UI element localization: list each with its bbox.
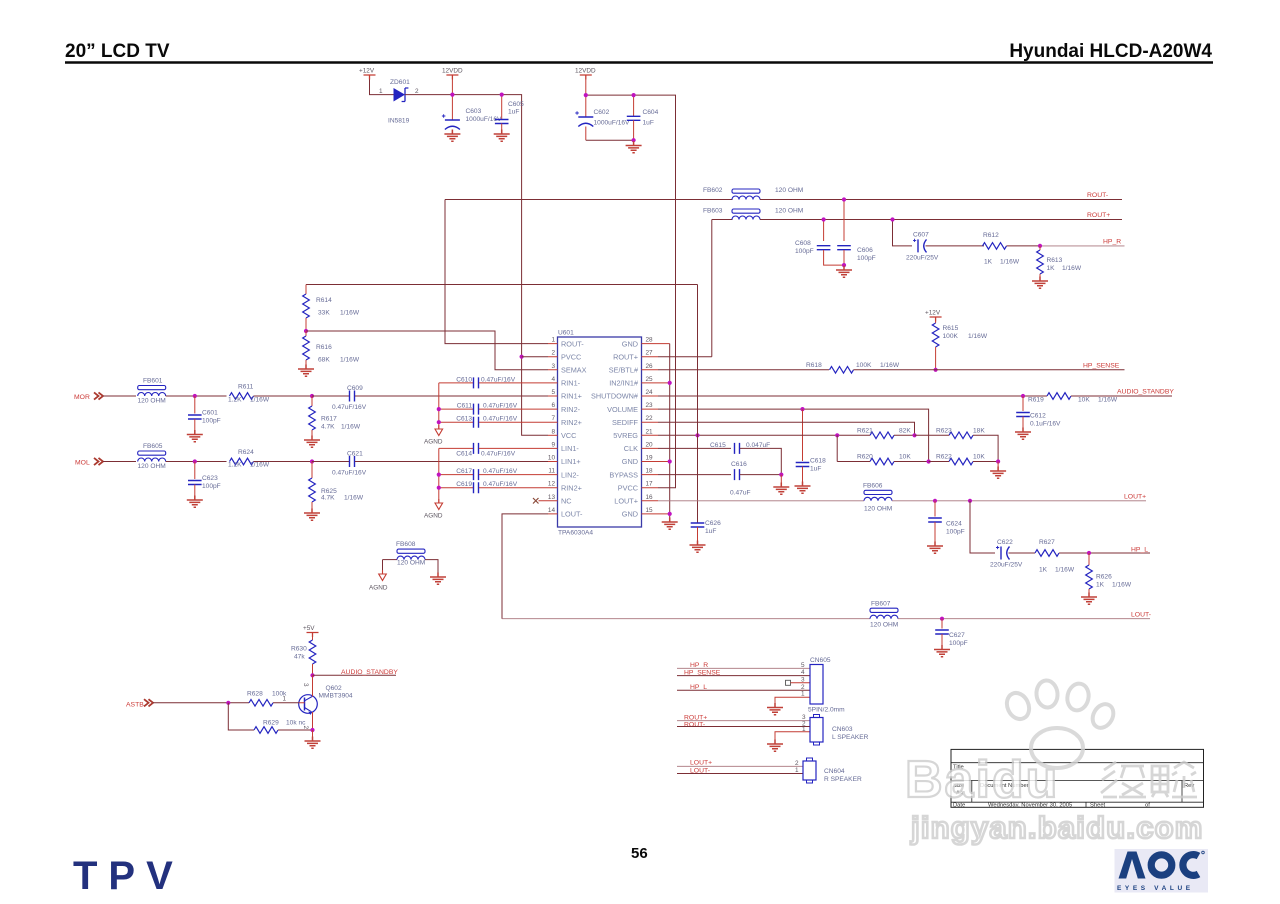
junction node ROUT+/C608	[822, 217, 826, 221]
svg-text:LIN2-: LIN2-	[561, 470, 579, 479]
svg-text:2: 2	[415, 88, 419, 95]
wire FB605 to R624	[166, 461, 227, 463]
ferrite bead FB608 120 OHM	[383, 541, 439, 577]
wire FB607 to LOUT-	[898, 618, 1150, 620]
svg-text:1/16W: 1/16W	[344, 495, 364, 502]
power +5V	[303, 625, 319, 637]
svg-text:TPA6030A4: TPA6030A4	[558, 530, 593, 537]
ground under C624	[927, 542, 943, 554]
svg-text:R629: R629	[263, 720, 279, 727]
svg-text:R617: R617	[321, 416, 337, 423]
svg-text:1/16W: 1/16W	[250, 462, 270, 469]
input ASTB	[126, 699, 153, 708]
junction node LOUT+/HP_L branch	[968, 499, 972, 503]
junction node C602/C604 gnd	[632, 138, 636, 142]
ground under C616 node	[773, 475, 789, 495]
capacitor C604 1uF	[627, 95, 659, 140]
junction node HP_R/R613	[1038, 244, 1042, 248]
junction node R621 right/SEDIFF	[912, 433, 916, 437]
svg-text:RIN1+: RIN1+	[561, 392, 582, 401]
svg-text:7: 7	[551, 415, 555, 422]
svg-text:C626: C626	[705, 520, 721, 527]
svg-text:ROUT-: ROUT-	[684, 722, 705, 729]
svg-text:EYES VALUE: EYES VALUE	[1117, 885, 1194, 892]
svg-text:6: 6	[551, 402, 555, 409]
svg-text:LOUT-: LOUT-	[561, 510, 583, 519]
svg-text:FB601: FB601	[143, 378, 163, 385]
junction node AUDIO_STANDBY/Q602	[310, 673, 314, 677]
capacitor C601 100pF	[188, 396, 221, 435]
IC U601 TPA6030A4	[558, 330, 642, 537]
svg-text:2: 2	[551, 350, 555, 357]
svg-text:R612: R612	[983, 232, 999, 239]
junction node LOUT-/C627	[940, 617, 944, 621]
svg-text:ZD601: ZD601	[390, 79, 410, 86]
ground under C612	[1015, 428, 1031, 440]
svg-text:120 OHM: 120 OHM	[397, 560, 425, 567]
connector CN603 L SPEAKER	[802, 714, 869, 745]
resistor network R621 82K	[837, 428, 914, 439]
svg-text:LIN1-: LIN1-	[561, 444, 579, 453]
svg-text:5VREG: 5VREG	[613, 431, 638, 440]
svg-text:SE/BTL#: SE/BTL#	[609, 366, 639, 375]
svg-text:0.47uF/16V: 0.47uF/16V	[332, 470, 367, 477]
wire VOLUME row pin23	[658, 409, 929, 461]
svg-text:20: 20	[646, 441, 654, 448]
svg-text:GND: GND	[622, 339, 638, 348]
wire AGND bus upper	[438, 383, 440, 429]
svg-text:Sheet: Sheet	[1090, 803, 1106, 809]
wire HP_R line	[677, 667, 810, 669]
resistor R626 1K 1/16W	[1086, 553, 1132, 597]
svg-text:24: 24	[646, 389, 654, 396]
svg-text:C624: C624	[946, 521, 962, 528]
svg-text:1/16W: 1/16W	[341, 424, 361, 431]
junction node HP_SENSE/R615	[934, 368, 938, 372]
zener diode ZD601 IN5819	[379, 79, 419, 125]
wire ROUT- row	[760, 199, 1122, 201]
svg-text:R SPEAKER: R SPEAKER	[824, 776, 862, 783]
svg-text:25: 25	[646, 376, 654, 383]
svg-text:1K: 1K	[1096, 582, 1105, 589]
svg-text:AGND: AGND	[369, 585, 388, 592]
wire R618 to HP_SENSE	[854, 369, 1125, 371]
wire LOUT+ branch to C622	[970, 501, 995, 553]
logo AOC	[1115, 849, 1209, 893]
svg-text:IN2/IN1#: IN2/IN1#	[609, 379, 639, 388]
svg-text:GND: GND	[622, 457, 638, 466]
ground under C605	[494, 130, 510, 142]
wire HP_SENSE row pin26	[658, 369, 829, 371]
svg-text:C605: C605	[508, 101, 524, 108]
power 12VDD #1	[442, 68, 463, 95]
svg-text:4.7K: 4.7K	[321, 495, 335, 502]
svg-text:12: 12	[548, 481, 556, 488]
svg-text:R615: R615	[943, 325, 959, 332]
resistor R616 68K 1/16W	[303, 331, 360, 369]
capacitor C608 100pF	[795, 220, 844, 266]
svg-text:13: 13	[548, 494, 556, 501]
wire BYPASS row pin18	[658, 474, 731, 476]
svg-text:1uF: 1uF	[705, 528, 716, 535]
svg-text:1/16W: 1/16W	[250, 397, 270, 404]
svg-text:C617: C617	[456, 468, 472, 475]
svg-text:R616: R616	[316, 344, 332, 351]
junction node HP_L/R626	[1087, 551, 1091, 555]
wire R612 to HP_R	[1007, 245, 1041, 247]
wire 5VREG row pin21	[658, 434, 837, 436]
svg-text:Q602: Q602	[326, 685, 342, 692]
svg-text:ROUT-: ROUT-	[561, 339, 584, 348]
svg-text:1uF: 1uF	[810, 466, 821, 473]
junction node LOUT+/C624	[933, 499, 937, 503]
svg-text:C612: C612	[1030, 413, 1046, 420]
wire MOR to FB601	[103, 395, 136, 397]
svg-text:1: 1	[379, 88, 383, 95]
ground under C627	[934, 645, 950, 657]
svg-text:ROUT+: ROUT+	[613, 352, 638, 361]
svg-text:1uF: 1uF	[643, 120, 654, 127]
wire pin1 ROUT- to FB602	[445, 200, 548, 344]
wire CN605 pin1 to ground	[775, 697, 810, 707]
svg-text:LOUT+: LOUT+	[614, 497, 638, 506]
wire ROUT+ row	[760, 219, 1122, 221]
svg-text:0.47uF/16V: 0.47uF/16V	[332, 404, 367, 411]
capacitor C626 1uF	[691, 520, 721, 545]
capacitor C613 0.47uF/16V	[439, 416, 548, 428]
svg-text:AGND: AGND	[424, 513, 443, 520]
svg-text:C613: C613	[456, 416, 472, 423]
transistor Q602 MMBT3904	[283, 675, 353, 730]
svg-text:0.1uF/16V: 0.1uF/16V	[1030, 421, 1061, 428]
svg-text:12VDD: 12VDD	[442, 68, 463, 75]
svg-text:100pF: 100pF	[795, 248, 814, 255]
svg-text:1/16W: 1/16W	[340, 310, 360, 317]
svg-text:0.47uF/16V: 0.47uF/16V	[483, 481, 518, 488]
junction node C617 agnd	[437, 473, 441, 477]
svg-text:PVCC: PVCC	[618, 483, 638, 492]
svg-text:R623: R623	[936, 428, 952, 435]
svg-text:C606: C606	[857, 247, 873, 254]
svg-text:R619: R619	[1028, 397, 1044, 404]
svg-text:jingyan.baidu.com: jingyan.baidu.com	[910, 810, 1204, 845]
svg-text:1K: 1K	[1039, 567, 1048, 574]
svg-text:3: 3	[302, 683, 309, 687]
svg-text:5PIN/2.0mm: 5PIN/2.0mm	[808, 707, 845, 714]
svg-text:220uF/25V: 220uF/25V	[906, 255, 939, 262]
svg-text:+5V: +5V	[303, 625, 315, 632]
svg-text:LOUT-: LOUT-	[1131, 611, 1151, 618]
svg-text:ROUT+: ROUT+	[1087, 212, 1110, 219]
no-connect X on pin 13	[533, 498, 539, 504]
svg-text:MOR: MOR	[74, 394, 90, 401]
resistor R624 1.2K 1/16W	[228, 449, 312, 469]
capacitor C606 100pF	[837, 200, 876, 266]
ground under CN603	[767, 740, 783, 752]
svg-text:220uF/25V: 220uF/25V	[990, 562, 1023, 569]
svg-text:C622: C622	[997, 539, 1013, 546]
svg-text:1/16W: 1/16W	[1098, 397, 1118, 404]
ground under C604	[626, 141, 642, 153]
svg-text:HP_R: HP_R	[690, 662, 708, 669]
svg-text:R627: R627	[1039, 539, 1055, 546]
wire MOL to FB605	[103, 461, 136, 463]
junction node 12VDD/C604	[632, 93, 636, 97]
svg-text:1/16W: 1/16W	[1055, 567, 1075, 574]
AGND symbol lower	[424, 499, 443, 520]
svg-text:1/16W: 1/16W	[968, 333, 988, 340]
svg-text:U601: U601	[558, 330, 574, 337]
svg-text:TPV: TPV	[73, 854, 184, 898]
svg-text:C616: C616	[731, 461, 747, 468]
svg-text:100pF: 100pF	[949, 640, 968, 647]
ground under R622	[997, 462, 999, 472]
ferrite bead FB603 120 OHM	[703, 208, 803, 220]
svg-text:CN603: CN603	[832, 726, 853, 733]
wire LOUT+ row pin16	[658, 500, 864, 502]
svg-text:VCC: VCC	[561, 431, 576, 440]
svg-text:RIN2-: RIN2-	[561, 405, 581, 414]
svg-text:23: 23	[646, 402, 654, 409]
junction node ASTB/R629	[226, 701, 230, 705]
svg-text:12VDD: 12VDD	[575, 68, 596, 75]
svg-text:+12V: +12V	[925, 310, 941, 317]
svg-text:100pF: 100pF	[857, 255, 876, 262]
junction node C612/R619	[1021, 394, 1025, 398]
svg-text:100pF: 100pF	[202, 418, 221, 425]
capacitor C623 100pF	[188, 462, 221, 501]
svg-text:10k nc: 10k nc	[286, 720, 306, 727]
capacitor C617 0.47uF/16V	[439, 468, 548, 480]
svg-text:14: 14	[548, 507, 556, 514]
junction node MOL/C623	[193, 459, 197, 463]
svg-text:C618: C618	[810, 458, 826, 465]
wire FB601 to R611	[166, 395, 227, 397]
wire LOUT- line to CN604	[677, 773, 803, 775]
ground under C626	[690, 541, 706, 553]
junction node MOR/C601	[193, 394, 197, 398]
ground under GND bus	[662, 518, 678, 530]
ground under R625	[304, 509, 320, 521]
IC right pin stubs	[642, 344, 670, 514]
capacitor C618 1uF	[796, 409, 826, 486]
svg-text:C609: C609	[347, 385, 363, 392]
svg-text:120 OHM: 120 OHM	[138, 397, 166, 404]
svg-text:1: 1	[802, 726, 806, 733]
svg-text:1/16W: 1/16W	[880, 362, 900, 369]
svg-text:120 OHM: 120 OHM	[775, 187, 803, 194]
input MOR	[74, 392, 103, 400]
svg-text:28: 28	[646, 337, 654, 344]
wire 5VREG riser	[697, 285, 699, 524]
junction node ROUT-/C606	[842, 197, 846, 201]
wire AUDIO_STANDBY row pin24	[658, 395, 1047, 397]
svg-text:1/16W: 1/16W	[1112, 582, 1132, 589]
wire CLK row pin20	[658, 447, 731, 449]
title block	[951, 749, 1204, 807]
resistor R611 1.2K 1/16W	[228, 384, 312, 404]
svg-text:4: 4	[801, 669, 805, 676]
svg-text:5: 5	[551, 389, 555, 396]
svg-text:19: 19	[646, 455, 654, 462]
svg-text:18: 18	[646, 468, 654, 475]
capacitor C624 100pF	[928, 501, 965, 546]
wire pin2 row	[522, 356, 548, 358]
svg-text:120 OHM: 120 OHM	[138, 463, 166, 470]
wire 5VREG to R614 top	[306, 284, 698, 286]
capacitor C611 0.47uF/16V	[439, 403, 548, 415]
svg-text:C611: C611	[457, 403, 473, 410]
svg-text:R621: R621	[857, 428, 873, 435]
junction node 5VREG riser	[695, 433, 699, 437]
svg-text:4.7K: 4.7K	[321, 424, 335, 431]
svg-text:RIN2+: RIN2+	[561, 418, 582, 427]
svg-text:17: 17	[646, 481, 654, 488]
svg-text:HP_L: HP_L	[1131, 546, 1148, 553]
svg-text:R630: R630	[291, 646, 307, 653]
capacitor C605 1uF	[495, 95, 524, 134]
junction node pin15 gnd	[668, 512, 672, 516]
svg-text:4: 4	[551, 376, 555, 383]
junction node 12VDD/C603	[450, 93, 454, 97]
resistor R618 100K 1/16W	[806, 362, 900, 373]
svg-text:1000uF/16V: 1000uF/16V	[594, 120, 631, 127]
wire ASTB to R628	[153, 702, 249, 704]
wire FB606 to LOUT+	[892, 500, 1146, 502]
junction node ROUT+/C607 branch	[890, 217, 894, 221]
IC left pin stubs	[539, 344, 558, 514]
svg-text:MMBT3904: MMBT3904	[319, 693, 353, 700]
capacitor C622 220uF/25V	[990, 539, 1035, 569]
resistor R614 33K 1/16W	[303, 285, 360, 332]
ground under C601	[187, 430, 203, 442]
wire ROUT- line to CN603	[677, 726, 810, 728]
svg-text:0.047uF: 0.047uF	[746, 442, 770, 449]
junction node R614/R616	[304, 329, 308, 333]
svg-text:CN604: CN604	[824, 768, 845, 775]
svg-text:RIN1-: RIN1-	[561, 379, 581, 388]
svg-text:C621: C621	[347, 451, 363, 458]
svg-text:0.47uF: 0.47uF	[730, 490, 751, 497]
svg-text:HP_SENSE: HP_SENSE	[1083, 362, 1120, 369]
junction node C615/C616	[779, 473, 783, 477]
header underline	[65, 61, 1213, 63]
ground under Q602	[305, 730, 321, 748]
resistor R628 100k	[247, 691, 299, 707]
ground right of FB608	[430, 573, 446, 585]
svg-text:100pF: 100pF	[946, 529, 965, 536]
junction node PVCC pin2	[520, 355, 524, 359]
svg-text:L SPEAKER: L SPEAKER	[832, 734, 869, 741]
svg-text:1.2K: 1.2K	[228, 397, 242, 404]
svg-text:VOLUME: VOLUME	[607, 405, 638, 414]
svg-text:C607: C607	[913, 232, 929, 239]
connector CN604 R SPEAKER	[795, 758, 862, 783]
svg-text:SEMAX: SEMAX	[561, 366, 587, 375]
capacitor C614 0.47uF/16V	[439, 443, 548, 458]
wire LOUT+ line to CN604	[677, 765, 803, 767]
ferrite bead FB607 120 OHM	[870, 601, 898, 629]
svg-text:C602: C602	[594, 109, 610, 116]
IC right pin numbers	[646, 337, 654, 514]
svg-text:1uF: 1uF	[508, 109, 519, 116]
ground under R626	[1081, 593, 1097, 605]
svg-text:C615: C615	[710, 442, 726, 449]
ground under C606/C608	[836, 266, 852, 278]
svg-text:56: 56	[631, 845, 648, 862]
wire AUDIO_STANDBY stub	[313, 674, 397, 676]
capacitor C621 0.47uF/16V	[312, 451, 548, 477]
ground under C618	[795, 482, 811, 494]
svg-text:9: 9	[551, 441, 555, 448]
svg-text:11: 11	[548, 468, 555, 475]
svg-text:1/16W: 1/16W	[1000, 259, 1020, 266]
svg-text:0.47uF/16V: 0.47uF/16V	[483, 468, 518, 475]
svg-text:R620: R620	[857, 454, 873, 461]
svg-text:120 OHM: 120 OHM	[775, 208, 803, 215]
svg-text:1: 1	[801, 691, 805, 698]
watermark baidu jingyan	[905, 680, 1204, 845]
svg-text:FB605: FB605	[143, 443, 163, 450]
svg-text:HP_R: HP_R	[1103, 239, 1121, 246]
svg-text:IN5819: IN5819	[388, 118, 410, 125]
junction node R629/emitter	[310, 728, 314, 732]
svg-text:C604: C604	[643, 109, 659, 116]
wire FB603 to pin27	[711, 220, 713, 357]
svg-text:FB602: FB602	[703, 187, 723, 194]
svg-text:SEDIFF: SEDIFF	[612, 418, 638, 427]
svg-text:10K: 10K	[1078, 397, 1090, 404]
resistor network R620 10K	[837, 454, 928, 465]
svg-text:120 OHM: 120 OHM	[870, 622, 898, 629]
svg-text:C608: C608	[795, 240, 811, 247]
wire 12VDD second rail	[586, 95, 676, 488]
junction node C613 agnd	[437, 420, 441, 424]
svg-text:C623: C623	[202, 475, 218, 482]
IC left pin numbers	[548, 337, 556, 514]
capacitor C602 1000uF/16V	[575, 95, 630, 140]
wire C602/C604 bottom rail	[586, 139, 634, 141]
power +12V #2	[925, 310, 942, 322]
junction node pin19 gnd	[668, 459, 672, 463]
GND bus right of IC	[669, 344, 671, 522]
junction node 12VDD/C602	[584, 93, 588, 97]
resistor R613 1K 1/16W	[1037, 246, 1082, 281]
svg-text:21: 21	[646, 428, 654, 435]
svg-text:0.47uF/16V: 0.47uF/16V	[483, 416, 518, 423]
junction node VOLUME/C618	[800, 407, 804, 411]
wire +12V to ZD601	[370, 80, 394, 95]
ground under C623	[187, 496, 203, 508]
svg-text:C610: C610	[456, 376, 472, 383]
power +12V symbol	[359, 68, 376, 80]
svg-text:C601: C601	[202, 410, 218, 417]
svg-text:+12V: +12V	[359, 68, 375, 75]
svg-text:33K: 33K	[318, 310, 330, 317]
junction node R621 left	[835, 433, 839, 437]
ground under CN605	[767, 703, 783, 715]
resistor R617 4.7K 1/16W	[309, 396, 361, 440]
svg-text:22: 22	[646, 415, 654, 422]
junction node R624/R625/C621	[310, 459, 314, 463]
svg-text:100k: 100k	[272, 691, 287, 698]
wire HP_SENSE line	[677, 675, 810, 677]
AGND symbol upper	[424, 425, 443, 446]
svg-text:R618: R618	[806, 362, 822, 369]
ferrite bead FB606 120 OHM	[863, 483, 892, 513]
svg-text:CLK: CLK	[624, 444, 638, 453]
svg-text:FB606: FB606	[863, 483, 883, 490]
